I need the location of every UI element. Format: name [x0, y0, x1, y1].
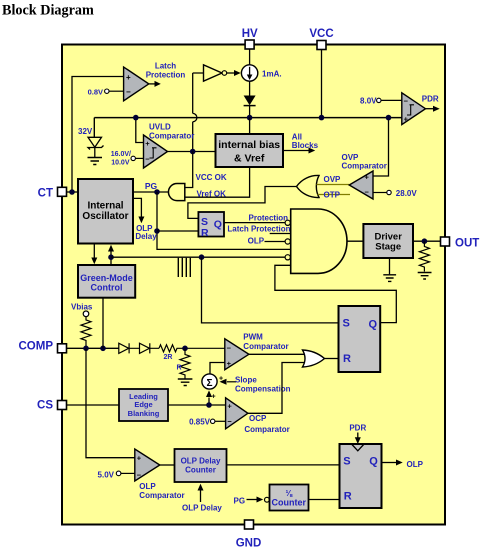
or gate PWM OCP — [303, 350, 325, 367]
svg-text:PG: PG — [145, 181, 158, 191]
svg-text:−: − — [227, 343, 232, 352]
inverter U2 — [204, 65, 227, 81]
svg-text:−: − — [365, 188, 370, 197]
and gate driver logic — [291, 209, 347, 273]
wire green mode to oscillator arrow — [108, 245, 114, 265]
wire OLP delay input arrow — [182, 484, 222, 513]
node PG branch to latch R — [154, 228, 160, 234]
svg-text:5.0V: 5.0V — [98, 470, 115, 479]
flipflop U4 SR — [339, 306, 381, 372]
label PWM Comparator — [243, 333, 288, 351]
svg-text:+: + — [365, 173, 370, 182]
svg-text:Vbias: Vbias — [71, 303, 93, 312]
wire CT node to latch comparator plus input — [72, 77, 124, 193]
wire VCC OK down to PG and gate — [185, 152, 227, 188]
node green mode rail junction — [108, 254, 114, 260]
svg-text:0.8V: 0.8V — [88, 87, 103, 96]
node OUT junction — [422, 238, 428, 244]
svg-text:CS: CS — [37, 400, 53, 412]
latch U3 SR — [198, 212, 224, 239]
or gate OVP OTP (mirrored) — [297, 175, 320, 197]
wire PG down to big gate — [157, 192, 291, 249]
resistor Vbias — [81, 317, 91, 349]
wire COMP line — [67, 347, 119, 349]
resistor R — [176, 348, 190, 378]
node PDR rail junction — [386, 115, 392, 121]
svg-text:PG: PG — [234, 496, 246, 505]
svg-text:Stage: Stage — [375, 242, 401, 253]
wire CS node up to summer arrow — [206, 390, 212, 405]
ground below zener — [88, 158, 103, 165]
svg-text:VCC OK: VCC OK — [196, 173, 227, 182]
svg-text:Comparator: Comparator — [149, 131, 194, 140]
pin VCC — [309, 28, 333, 50]
wire oscillator OLP delay arrow — [133, 198, 157, 240]
value 16.0V 10.0V — [111, 151, 136, 167]
svg-text:CT: CT — [38, 188, 53, 200]
comparator latch protection — [124, 67, 149, 101]
svg-text:+: + — [227, 359, 232, 368]
svg-text:−: − — [404, 97, 409, 106]
value 0.85V — [189, 418, 226, 427]
wire PWM output to or gate — [249, 353, 305, 355]
wire OTP stub — [318, 191, 351, 200]
wire VDD rail — [94, 117, 402, 119]
svg-text:Comparator: Comparator — [244, 425, 289, 434]
wire HV pin to current source — [249, 49, 251, 65]
svg-text:0.85V: 0.85V — [189, 418, 211, 427]
diode D3 — [140, 343, 160, 353]
svg-text:32V: 32V — [78, 127, 93, 136]
wire flipflop Q to OLP output arrow — [382, 460, 424, 469]
comparator PDR — [402, 93, 426, 125]
pin COMP — [19, 341, 67, 353]
svg-text:Σ: Σ — [206, 378, 212, 389]
resistor output pulldown — [419, 241, 429, 271]
svg-text:Control: Control — [91, 282, 123, 292]
svg-text:+: + — [227, 401, 232, 410]
wire PDR arrow into flipflop — [349, 424, 366, 444]
node CS junction — [206, 402, 212, 408]
wire rail to bias box top — [249, 118, 251, 134]
svg-text:Slope: Slope — [235, 376, 257, 385]
svg-text:OTP: OTP — [324, 191, 341, 200]
block green mode control — [78, 265, 135, 298]
label Latch Protection — [146, 62, 186, 80]
node VCC rail junction — [319, 115, 325, 121]
wire flipflop Q feedback to big gate — [275, 265, 396, 322]
wire CS pin to LEB — [67, 404, 120, 406]
wire latch Q to big gate protection input — [224, 213, 288, 222]
node CT junction — [69, 189, 75, 195]
ground R — [178, 379, 193, 386]
diode D2 — [119, 343, 140, 353]
svg-text:8.0V: 8.0V — [360, 97, 377, 106]
value Vbias — [71, 303, 93, 317]
wire pulse rail to flipflop S input — [202, 257, 339, 323]
svg-text:OVP: OVP — [324, 175, 342, 184]
wire OLP stub to big gate — [248, 237, 286, 246]
and gate PG (mirrored) — [168, 184, 184, 201]
svg-text:internal bias: internal bias — [218, 139, 280, 151]
pulse train symbol — [178, 258, 190, 277]
svg-text:S: S — [343, 456, 350, 468]
wire oscillator to green mode arrow — [91, 244, 97, 265]
wire Vref OK from bias box to PG and gate — [185, 167, 250, 199]
wire driver to ground — [389, 258, 391, 274]
wire OVP comparator output to or gate — [317, 175, 350, 185]
block driver stage — [363, 224, 413, 258]
svg-text:UVLD: UVLD — [149, 123, 171, 132]
svg-text:Counter: Counter — [185, 465, 216, 474]
svg-text:−: − — [126, 88, 131, 97]
wire or gate to flipflop R — [325, 358, 339, 360]
wire driver output to OUT pin — [413, 240, 441, 242]
block internal bias and Vref — [216, 134, 284, 167]
svg-text:OCP: OCP — [249, 414, 267, 423]
flipflop U5 SR with PDR — [340, 444, 382, 508]
diode D1 — [244, 81, 256, 117]
comparator PWM — [225, 339, 249, 370]
svg-text:OLP: OLP — [248, 237, 265, 246]
svg-text:OLP: OLP — [139, 482, 156, 491]
svg-text:Q: Q — [369, 456, 378, 468]
svg-text:R: R — [176, 365, 181, 372]
node bubble pulse input — [285, 255, 290, 260]
wire OCP output to or gate — [248, 363, 305, 414]
IC boundary box — [62, 45, 445, 525]
svg-text:16.0V/: 16.0V/ — [111, 151, 131, 158]
svg-text:VCC: VCC — [309, 28, 333, 40]
svg-text:OLP Delay: OLP Delay — [182, 504, 222, 513]
node UVLD rail junction — [133, 115, 139, 121]
ground driver stage — [383, 275, 396, 282]
wire OLP comparator to delay counter — [160, 464, 175, 466]
label UVLD Comparator — [149, 123, 194, 141]
svg-text:All: All — [292, 132, 302, 141]
wire PG to latch R input — [157, 230, 198, 232]
svg-text:PDR: PDR — [422, 95, 439, 104]
value 8.0V — [360, 97, 402, 106]
wire slope compensation arrow — [220, 376, 291, 394]
node bubble protection input — [285, 220, 290, 225]
svg-text:1mA.: 1mA. — [262, 70, 282, 79]
value 0.8V — [88, 87, 109, 96]
wire 0.8V to latch comparator minus input — [109, 90, 124, 92]
svg-text:28.0V: 28.0V — [396, 189, 418, 198]
svg-text:+: + — [137, 453, 142, 462]
svg-text:R: R — [343, 353, 351, 365]
svg-text:HV: HV — [242, 28, 258, 40]
svg-text:+: + — [126, 73, 131, 82]
pin CS — [37, 400, 66, 412]
label OLP Comparator — [139, 482, 184, 500]
node PG junction — [154, 189, 160, 195]
svg-text:OUT: OUT — [455, 238, 479, 250]
wire latch comparator output arrow — [149, 81, 161, 87]
svg-text:R: R — [201, 227, 209, 239]
wire All Blocks arrow — [283, 132, 319, 153]
svg-text:Comparator: Comparator — [342, 161, 387, 170]
svg-text:& Vref: & Vref — [234, 153, 265, 165]
wire rail to UVLD plus input — [136, 118, 144, 143]
title — [2, 3, 94, 19]
svg-text:Comparator: Comparator — [243, 342, 288, 351]
ground output resistor — [418, 273, 432, 280]
svg-text:−: − — [145, 154, 150, 163]
svg-text:−: − — [137, 470, 142, 479]
svg-text:S: S — [343, 317, 350, 329]
svg-text:Blanking: Blanking — [128, 409, 160, 418]
wire sum to PWM plus input — [210, 363, 225, 375]
svg-text:COMP: COMP — [19, 341, 54, 353]
svg-text:−: − — [227, 417, 232, 426]
pin OUT — [441, 237, 480, 250]
wire 16V ref to UVLD minus input — [135, 157, 143, 159]
wire PDR node down to OVP plus input — [373, 118, 389, 176]
pin HV — [242, 28, 258, 49]
node UVLD output junction — [190, 149, 196, 155]
svg-text:Block Diagram: Block Diagram — [2, 3, 94, 19]
node bubble OLP input — [285, 239, 290, 244]
node diode rail junction — [247, 115, 253, 121]
svg-text:Latch: Latch — [155, 62, 176, 71]
svg-text:Protection: Protection — [146, 71, 186, 80]
comparator UVLD — [144, 135, 168, 168]
wire PDR output arrow — [422, 95, 440, 112]
wire big gate output to driver — [347, 240, 363, 242]
svg-text:Counter: Counter — [272, 497, 307, 507]
node green mode junction — [100, 346, 106, 352]
wire OVP OR output to latch S input — [188, 187, 297, 219]
svg-text:Protection: Protection — [249, 213, 289, 222]
pin GND — [236, 520, 262, 550]
block divide counter — [270, 485, 309, 511]
svg-text:Latch Protection: Latch Protection — [227, 225, 290, 234]
svg-text:GND: GND — [236, 538, 262, 550]
wire VCC pin to rail — [321, 50, 323, 118]
summer sigma — [202, 374, 223, 401]
pin CT — [38, 187, 67, 199]
zener diode 32V — [78, 127, 104, 157]
block internal oscillator — [78, 179, 133, 244]
wire UVLD output to bias box — [168, 151, 216, 153]
node PWM input junction — [182, 346, 188, 352]
node Vbias junction — [83, 346, 89, 352]
svg-text:OLP Delay: OLP Delay — [181, 456, 221, 465]
svg-text:Blocks: Blocks — [292, 141, 319, 150]
wire inverter to current source arrow — [227, 70, 241, 76]
block leading edge blanking — [119, 389, 168, 421]
wire LEB output to OCP — [168, 404, 226, 406]
wire UVLD output up to inverter input with rail hop — [193, 73, 204, 152]
block OLP delay counter — [175, 449, 227, 482]
wire rail left end to zener — [93, 118, 95, 138]
label OCP Comparator — [244, 414, 289, 434]
current source 1mA — [241, 65, 281, 81]
svg-text:Delay: Delay — [135, 232, 157, 241]
wire COMP to OLP comparator — [86, 348, 135, 457]
node pulse rail junction — [199, 254, 205, 260]
svg-text:+: + — [212, 394, 216, 401]
svg-text:Comparator: Comparator — [139, 491, 184, 500]
comparator OLP — [135, 449, 160, 481]
svg-text:S: S — [201, 216, 208, 228]
svg-text:Internal: Internal — [87, 201, 123, 212]
svg-text:Q: Q — [369, 319, 378, 331]
wire PG gate output to oscillator — [133, 181, 168, 192]
svg-text:PDR: PDR — [349, 424, 366, 433]
comparator OCP — [226, 398, 248, 429]
svg-text:Oscillator: Oscillator — [82, 211, 128, 222]
value 28.0V — [373, 189, 417, 198]
resistor 2R — [159, 345, 225, 361]
wire CT pin to oscillator — [67, 191, 79, 193]
svg-text:OLP: OLP — [407, 460, 424, 469]
wire counter to flipflop R — [309, 499, 340, 501]
svg-text:Green-Mode: Green-Mode — [80, 273, 133, 283]
svg-text:Edge: Edge — [134, 400, 152, 409]
svg-text:+: + — [404, 114, 409, 123]
wire PG to counter arrow — [234, 496, 270, 505]
svg-text:R: R — [344, 490, 352, 502]
wire delay counter to flipflop S — [227, 464, 340, 466]
value 5.0V — [98, 470, 135, 479]
comparator OVP (mirrored) — [349, 171, 373, 199]
svg-text:Vref OK: Vref OK — [197, 190, 227, 199]
label OVP Comparator — [342, 153, 387, 171]
svg-text:Q: Q — [214, 218, 222, 230]
wire green mode to COMP line — [102, 298, 104, 349]
svg-text:2R: 2R — [164, 354, 173, 361]
label Latch Protection input — [227, 225, 290, 234]
svg-text:PWM: PWM — [243, 333, 263, 342]
wire oscillator pulse rail — [111, 256, 285, 258]
svg-text:10.0V: 10.0V — [111, 160, 130, 167]
